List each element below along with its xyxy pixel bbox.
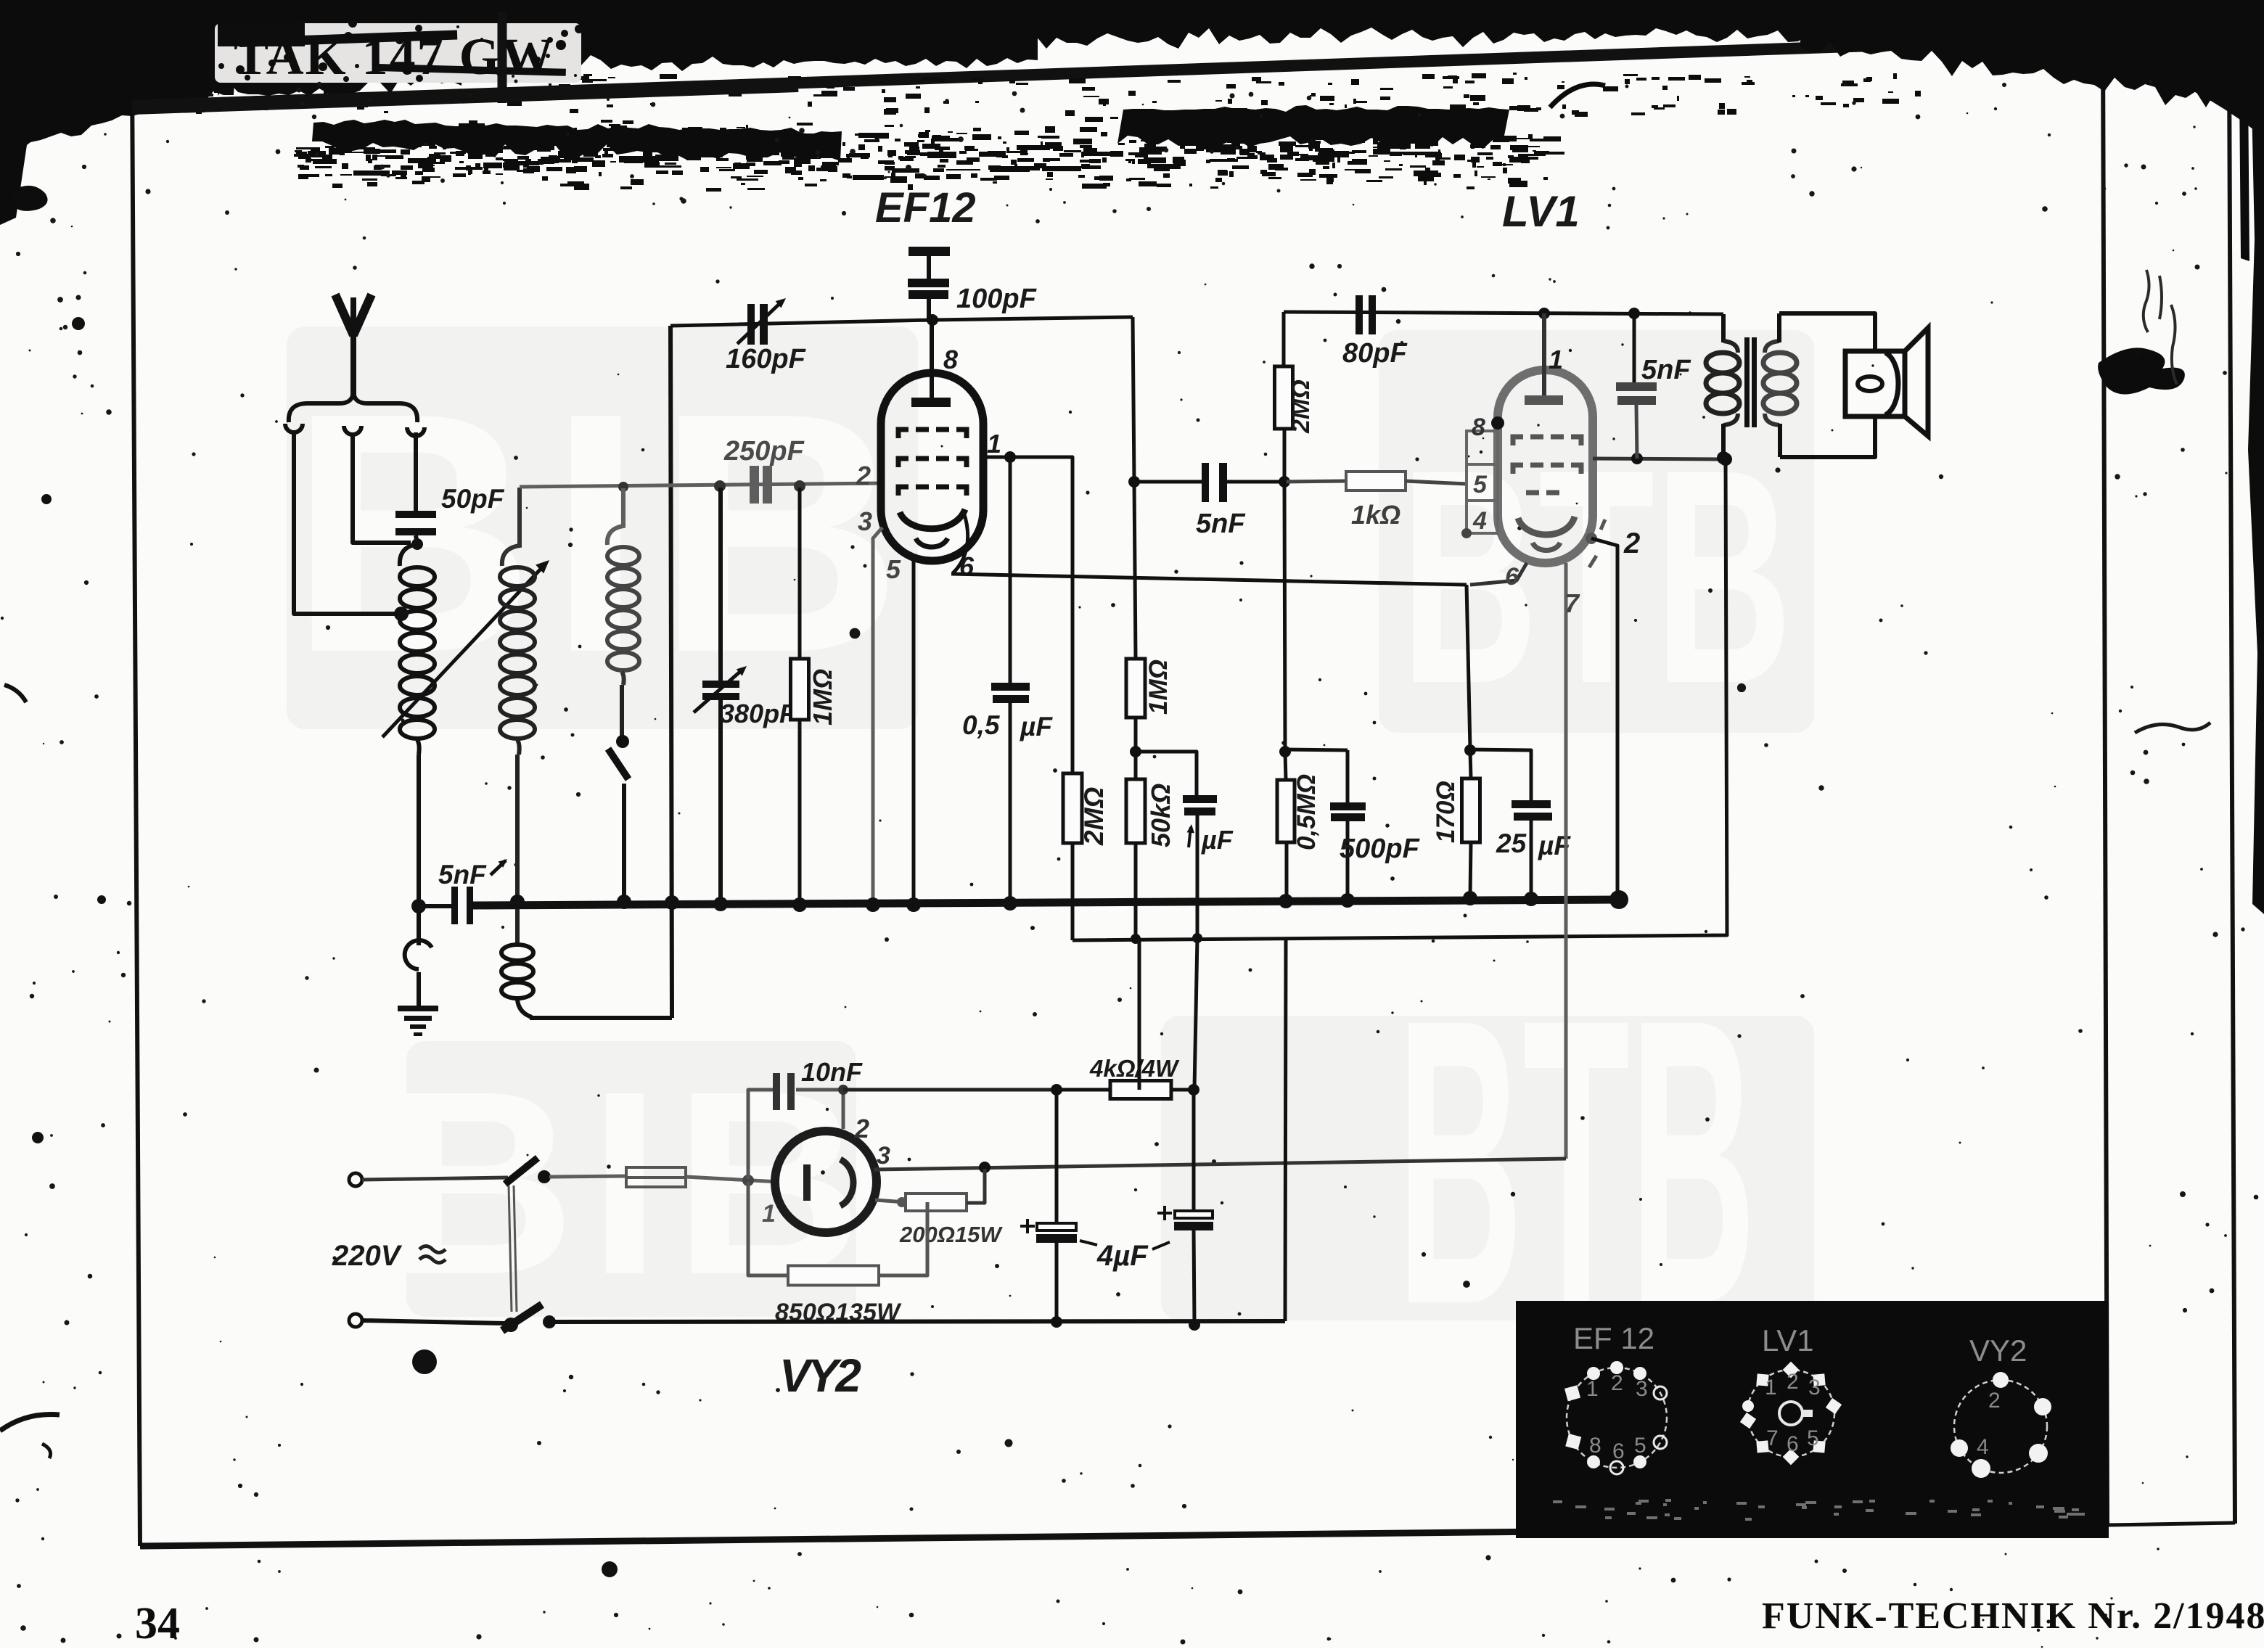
secondary top riser [1777,313,1781,342]
frame left border [132,73,140,1546]
coil L2 (tuned winding) [502,488,520,566]
capacitor 380pF (variable) [718,488,723,681]
svg-text:2: 2 [1611,1371,1623,1395]
svg-text:0,5MΩ: 0,5MΩ [1292,774,1321,850]
svg-text:1: 1 [1549,345,1563,374]
electrolytic 4uF no.2 [1192,1090,1196,1211]
bias rail below bus [1072,459,1727,940]
capacitor 0.5uF [1009,457,1012,683]
svg-text:VY2: VY2 [1969,1333,2027,1368]
svg-text:LV1: LV1 [1762,1323,1814,1357]
pin6 wire across [951,574,1467,585]
scan noise: top black band [0,0,2264,55]
ground bus [473,900,1619,905]
tube EF12 [881,373,983,561]
resistor 200&#937;15W [897,1197,907,1207]
svg-text:2MΩ: 2MΩ [1079,787,1109,846]
fuse [549,1176,626,1177]
drop 1uF node to 4k right [1194,938,1197,1088]
title smear streaks [239,30,457,47]
svg-text:4: 4 [1977,1435,1989,1459]
tap blob on coil L1 [394,607,409,621]
svg-text:170Ω: 170Ω [1432,781,1460,843]
mains terminal lower [349,1314,362,1327]
node 100pF junction [927,314,938,326]
capacitor 50pF [395,511,436,518]
pin5 wire to bus [912,561,916,903]
coupling node vertical [1133,317,1136,659]
VY2 anode bar [803,1164,811,1201]
svg-text:1: 1 [762,1200,776,1228]
svg-text:5nF: 5nF [1196,509,1246,539]
frame bottom border [140,1526,2109,1546]
LV1 grids [1513,437,1523,445]
svg-text:3: 3 [877,1142,890,1170]
transformer secondary [1763,353,1797,373]
right margin squiggle marks [2144,270,2177,385]
svg-text:5: 5 [1634,1434,1646,1458]
frame top border [132,38,2103,106]
svg-text:5nF: 5nF [438,860,487,889]
svg-text:4: 4 [1472,507,1487,535]
bus end node [1609,890,1628,909]
svg-text:100pF: 100pF [956,284,1038,314]
panel footer marks [1627,1512,1636,1515]
watermark band row2 right [1161,1016,1814,1320]
scan noise: streak band grains [697,144,700,148]
svg-text:4µF: 4µF [1096,1240,1149,1272]
EF12 top cap bar [911,398,951,407]
antenna terminal hooks [285,424,303,432]
resistor 4k&#937;/4W [1057,1088,1110,1092]
resistor 1M&#937; (second) [1126,659,1145,718]
svg-text:2: 2 [1988,1389,2001,1413]
svg-text:LV1: LV1 [1502,187,1580,236]
wire right hook to 50pF [414,432,418,512]
ground branch [417,906,421,945]
speaker horn [1905,328,1928,436]
svg-text:5: 5 [1473,471,1488,498]
switch link [509,1185,512,1312]
resistor 0.5M&#937; [1285,752,1286,780]
node antenna/coil top [411,538,423,550]
LV1 top cap [1525,395,1563,405]
scan noise: right corner droop [2141,69,2264,138]
svg-text:8: 8 [1472,414,1485,441]
resistor 1M&#937; (first) [798,488,802,659]
svg-text:1: 1 [987,429,1001,459]
scan noise: top-right corner mass [1800,0,2264,108]
scan noise: right mid blob [2098,348,2185,394]
coil L3 (switched winding) [607,488,623,545]
svg-text:1kΩ: 1kΩ [1351,500,1400,530]
LV1 pin ladder [1467,431,1498,533]
wire L1 to bus [417,755,421,905]
grid wire (gray) [520,483,881,487]
svg-text:µF: µF [1020,712,1053,741]
node bus left [411,899,426,913]
secondary bottom riser [1778,424,1782,457]
svg-text:5: 5 [886,554,901,584]
LV1 grid row3 short [1526,490,1539,496]
mains terminal upper [349,1173,362,1186]
capacitor 5nF (output) [1633,313,1636,382]
electrolytic 4uF no.1 [1055,1090,1059,1223]
pin3 wire to bus [873,527,882,903]
plate wire LV1 [1593,459,1726,459]
watermark band row1 right [1379,330,1814,733]
svg-text:1MΩ: 1MΩ [1144,659,1173,715]
tuning arrow L1/L2 [382,565,544,737]
svg-text:0,5: 0,5 [962,710,1001,740]
watermark band row1 left [287,326,918,729]
svg-text:6: 6 [1787,1432,1799,1456]
capacitor 25uF [1470,749,1531,800]
title box backing [215,23,581,83]
svg-text:BIB: BIB [289,342,915,723]
scan noise: right edge streak [2248,0,2264,914]
svg-text:2: 2 [1623,527,1640,559]
svg-text:220V: 220V [332,1240,403,1272]
resistor 850&#937;135W [748,1182,788,1275]
svg-text:25: 25 [1496,829,1527,858]
capacitor 250pF [750,466,759,504]
svg-text:4kΩ/4W: 4kΩ/4W [1089,1055,1180,1082]
wire top segment B [1284,312,1723,314]
svg-text:380pF: 380pF [720,699,796,728]
svg-text:3: 3 [1808,1376,1821,1400]
svg-text:7: 7 [1766,1426,1779,1450]
pinout panel [1516,1301,2109,1538]
svg-text:34: 34 [135,1599,180,1648]
capacitor 10nF [842,1090,845,1129]
svg-text:2MΩ: 2MΩ [1287,379,1315,434]
LV1 cathode [1518,517,1575,535]
resistor 50k&#937; [1134,752,1138,779]
capacitor 80pF [1355,295,1363,334]
speaker coil box [1845,351,1905,416]
capacitor 500pF [1346,750,1350,802]
bottom-right connector rule [2107,1523,2235,1525]
svg-text:6: 6 [1612,1439,1625,1463]
pin1 node [983,456,1010,459]
node primary bottom [1717,451,1730,464]
switch (wave change) [616,735,629,748]
title box right bar [498,12,507,103]
drop bias rail to minus rail [1285,937,1286,1321]
capacitor 160pF (variable) [747,304,755,345]
svg-text:7: 7 [1564,588,1580,618]
svg-text:50kΩ: 50kΩ [1146,784,1176,847]
wire secondary to speaker top [1779,313,1875,351]
wire left hook down [294,432,395,614]
svg-text:3: 3 [1636,1377,1648,1401]
ground symbol [398,1006,438,1011]
svg-text:5nF: 5nF [1641,355,1691,385]
transformer primary [1706,353,1739,373]
B+ line 10nF to 4k [838,1085,848,1095]
svg-text:8: 8 [1589,1434,1601,1458]
scan noise: small arc top-middle [1550,84,1605,107]
svg-text:5: 5 [1807,1426,1819,1450]
svg-text:VY2: VY2 [779,1349,861,1402]
antenna [335,295,353,335]
transformer primary feed [1721,314,1726,342]
wire middle hook down [353,432,411,543]
coil L1 antenna coil [400,544,417,566]
svg-text:2: 2 [1787,1370,1799,1394]
svg-text:FUNK-TECHNIK Nr. 2/1948: FUNK-TECHNIK Nr. 2/1948 [1762,1595,2264,1637]
switch upper pole [362,1178,508,1180]
resistor 170&#937; [1467,585,1470,749]
frame top border thick left part [132,85,798,107]
resistor 2M&#937; (LV1 grid) [1282,312,1286,366]
scan noise: top-left heavy mass [0,0,239,160]
ink blob bottom-left [412,1349,437,1374]
tube LV1 [1498,370,1593,563]
node L2 bus [510,895,525,909]
tube VY2 [775,1131,877,1233]
svg-text:EF12: EF12 [875,184,976,231]
resistor 1k&#937; [1284,481,1346,482]
svg-text:500pF: 500pF [1340,834,1421,864]
title degradation blobs [402,65,412,75]
riser feedback to 160pF line [670,326,672,1018]
switch lower pole [362,1320,505,1323]
svg-text:µF: µF [1201,825,1234,855]
watermark band row2 left [406,1041,856,1317]
svg-text:8: 8 [943,345,958,374]
svg-text:80pF: 80pF [1342,338,1408,369]
wire top segment A [670,317,1133,326]
capacitor 100pF trimmer [909,247,950,256]
pin6 stub LV1 [1470,563,1527,585]
svg-text:1MΩ: 1MΩ [808,669,837,726]
svg-text:1: 1 [1765,1376,1777,1400]
svg-text:250pF: 250pF [723,436,805,467]
capacitor 1uF [1136,752,1197,795]
svg-text:2: 2 [856,461,871,490]
scan speckles [1030,926,1035,930]
frame right border [2103,38,2107,1525]
EF12 grids [898,430,909,438]
svg-text:2: 2 [854,1114,869,1143]
left margin ink marks [12,186,48,211]
right margin rule [2229,57,2235,1524]
bottom-left pen arc [0,1414,60,1431]
wire fuse to VY2 pin1 [686,1177,779,1182]
svg-text:EF 12: EF 12 [1573,1321,1654,1355]
antenna lead-in brace [289,390,417,422]
svg-text:200Ω15W: 200Ω15W [899,1222,1003,1247]
svg-text:3: 3 [858,506,872,536]
EF12 cathode [900,509,965,529]
svg-text:160pF: 160pF [726,344,807,374]
svg-text:1: 1 [1586,1377,1599,1401]
pin1 branch to 2M&#937; [1010,457,1072,773]
svg-text:6: 6 [959,551,975,581]
drop 50k node to B+ [1138,939,1141,1090]
pin2 stub [1586,533,1597,544]
svg-text:50pF: 50pF [441,484,505,514]
scan noise: title-area mass [123,0,1038,76]
scan noise: dense streak cores [312,120,842,161]
svg-text:6: 6 [1505,563,1519,591]
feedback coil L4 [501,945,533,961]
wire speaker return [1780,416,1875,457]
transformer core [1744,337,1750,427]
pin7 heater drop [1564,563,1568,1159]
capacitor 5nF coupling [1134,480,1202,484]
AVC line to detector load [1284,482,1348,750]
svg-text:10nF: 10nF [801,1057,863,1087]
minus rail [549,1321,1285,1322]
capacitor 5nF (bus) [424,904,453,908]
VY2 cathode arc [840,1159,853,1206]
resistor 2M&#937; [1063,773,1082,843]
